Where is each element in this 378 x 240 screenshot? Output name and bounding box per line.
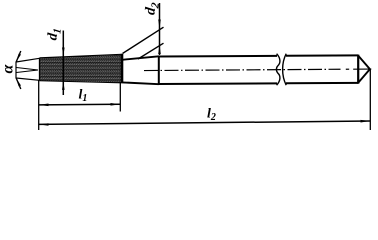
abrasive section stipple — [40, 55, 123, 83]
dimension d2 extension oblique long — [123, 27, 164, 53]
centerline through tip — [353, 68, 371, 70]
l1 extension left — [38, 81, 40, 131]
shank bottom edge left piece — [159, 82, 277, 85]
arrowhead l1 right — [111, 103, 121, 106]
centerline dot near tip — [346, 68, 349, 70]
abrasive section left edge — [39, 58, 41, 80]
arrowhead d1 top (down) — [62, 48, 65, 57]
arrowhead l2 left — [39, 123, 49, 126]
end point cone lower — [358, 69, 370, 83]
svg-text:d1: d1 — [45, 27, 64, 42]
l2 dimension line — [39, 121, 371, 124]
dimension d1 line — [62, 31, 64, 96]
svg-text:l2: l2 — [207, 107, 216, 124]
tip core wedge lower — [16, 70, 38, 73]
shank top edge left piece — [159, 55, 277, 58]
cone bottom edge — [122, 82, 159, 84]
break line left — [276, 54, 280, 85]
abrasive section right wall — [121, 54, 124, 83]
shank end face — [357, 55, 359, 84]
tip bottom edge — [16, 78, 40, 80]
shank top edge right piece — [286, 54, 358, 56]
tip core wedge upper — [16, 68, 38, 71]
shank bottom edge right piece — [286, 82, 358, 84]
centerline — [144, 69, 341, 70]
tip top edge — [16, 58, 40, 62]
break line right — [283, 54, 287, 85]
dimension d2 extension oblique short — [138, 43, 164, 59]
l2 extension right — [369, 69, 371, 130]
dimension d2 line — [159, 3, 161, 55]
alpha arrow upper — [16, 51, 21, 62]
svg-text:l1: l1 — [79, 88, 88, 105]
tip face — [15, 62, 17, 79]
cone top edge — [122, 56, 159, 60]
arrowhead d1 bottom (up) — [62, 81, 65, 90]
arrowhead l1 left — [39, 104, 49, 107]
l1 extension right — [119, 82, 121, 112]
shank junction line — [158, 56, 160, 86]
arrowhead alpha upper — [16, 54, 21, 62]
arrowhead d2 top (down) — [158, 20, 161, 29]
alpha arrow lower — [16, 78, 21, 89]
arrowhead alpha lower — [16, 78, 21, 86]
arrowhead d2 bottom (up) — [158, 45, 161, 54]
taper bottom edge — [40, 80, 123, 82]
arrowhead l2 right — [361, 120, 371, 123]
svg-text:α: α — [0, 63, 17, 73]
l1 dimension line — [39, 103, 121, 106]
end point cone upper — [358, 56, 370, 70]
taper top edge — [40, 55, 123, 59]
